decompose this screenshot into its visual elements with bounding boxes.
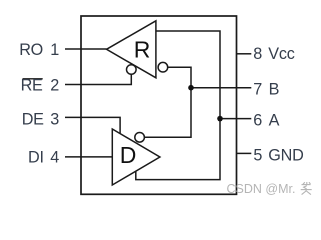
svg-text:B: B [269, 80, 280, 98]
svg-text:2: 2 [50, 77, 59, 95]
svg-text:RE: RE [21, 77, 43, 95]
svg-text:1: 1 [50, 41, 59, 59]
svg-text:6: 6 [253, 111, 262, 129]
svg-text:Vcc: Vcc [268, 45, 294, 63]
svg-text:A: A [269, 111, 280, 129]
svg-text:4: 4 [50, 149, 59, 167]
svg-text:3: 3 [50, 110, 59, 128]
svg-text:D: D [120, 142, 137, 168]
svg-text:5: 5 [253, 147, 262, 165]
svg-text:GND: GND [268, 147, 303, 165]
svg-text:DI: DI [28, 149, 44, 167]
svg-text:7: 7 [253, 80, 262, 98]
svg-text:8: 8 [253, 45, 262, 63]
svg-text:R: R [134, 36, 151, 62]
svg-text:DE: DE [22, 110, 44, 128]
svg-text:CSDN @Mr.: CSDN @Mr. [227, 182, 296, 196]
svg-text:RO: RO [19, 41, 43, 59]
